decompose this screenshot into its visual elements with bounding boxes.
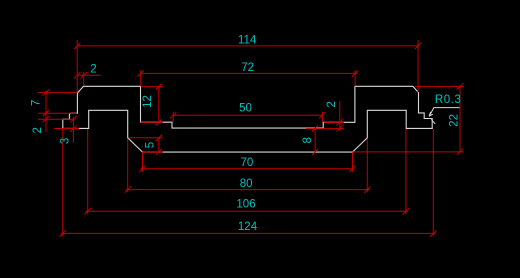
dim 3 (left) <box>54 117 79 143</box>
red dimension graphics <box>38 40 464 237</box>
dim 2 (right step) <box>306 101 344 131</box>
svg-text:R0.3: R0.3 <box>435 94 462 106</box>
dim 2 (top-left chamfer) <box>77 72 100 86</box>
dim 5 <box>129 138 163 152</box>
svg-text:22: 22 <box>449 114 461 127</box>
dim 72 <box>141 70 357 86</box>
svg-text:2: 2 <box>32 127 44 133</box>
dim 22 <box>353 86 464 151</box>
part outline (cross-section profile) <box>63 86 432 152</box>
R0.3 leader (white) <box>429 108 460 124</box>
svg-text:3: 3 <box>60 138 72 144</box>
svg-text:70: 70 <box>241 157 254 169</box>
svg-text:5: 5 <box>145 142 157 148</box>
svg-text:50: 50 <box>239 103 252 115</box>
dim 12 <box>141 87 163 123</box>
dimension texts <box>31 35 462 233</box>
svg-text:124: 124 <box>238 221 258 233</box>
svg-text:8: 8 <box>302 137 314 143</box>
dim 106 <box>86 129 408 214</box>
dim 124 <box>61 129 436 236</box>
dim 8 <box>314 128 316 152</box>
svg-text:2: 2 <box>90 63 96 75</box>
svg-text:7: 7 <box>31 100 43 106</box>
svg-text:80: 80 <box>240 178 253 190</box>
svg-text:114: 114 <box>238 35 257 47</box>
svg-text:106: 106 <box>236 198 255 210</box>
dim 70 <box>141 152 355 171</box>
svg-text:2: 2 <box>326 101 338 107</box>
dim 50 <box>173 112 322 123</box>
svg-text:72: 72 <box>241 62 254 74</box>
dim 114 <box>77 40 420 93</box>
dim 7 and dim 2 (left stack) <box>38 90 77 132</box>
dim 80 <box>126 139 370 193</box>
svg-text:12: 12 <box>142 95 154 108</box>
